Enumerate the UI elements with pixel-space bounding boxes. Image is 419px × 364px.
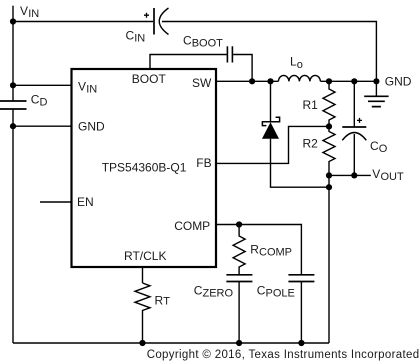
svg-text:C: C — [126, 28, 135, 42]
svg-text:IN: IN — [134, 32, 145, 44]
svg-text:C: C — [31, 93, 40, 107]
node RCOMP junction — [236, 221, 242, 227]
capacitor CZERO — [226, 275, 252, 343]
wire RT/CLK riser — [142, 268, 144, 284]
label CZERO — [194, 284, 234, 300]
svg-text:C: C — [183, 33, 192, 47]
capacitor CD — [0, 101, 27, 109]
label CPOLE — [257, 284, 295, 300]
label CD — [31, 93, 48, 109]
svg-text:BOOT: BOOT — [192, 37, 223, 49]
svg-text:o: o — [297, 59, 303, 71]
resistor R1 — [323, 81, 335, 126]
wire CBOOT to SW — [233, 55, 252, 82]
svg-text:ZERO: ZERO — [203, 288, 234, 300]
inductor Lo — [278, 75, 320, 81]
wire bottom rail — [13, 342, 329, 344]
svg-text:FB: FB — [196, 156, 211, 170]
resistor R2 — [323, 126, 335, 343]
capacitor CBOOT — [227, 46, 232, 62]
svg-text:T: T — [163, 295, 170, 307]
svg-text:V: V — [372, 167, 380, 181]
svg-text:COMP: COMP — [174, 219, 210, 233]
svg-text:TPS54360B-Q1: TPS54360B-Q1 — [102, 160, 187, 174]
wire left rail upper — [12, 6, 14, 101]
net label VIN — [20, 4, 39, 20]
wire COMP — [216, 225, 301, 275]
svg-text:V: V — [20, 4, 28, 18]
net label VOUT — [372, 167, 404, 183]
svg-text:IN: IN — [86, 83, 97, 95]
node GND pin junction — [10, 123, 16, 129]
wire VOUT — [329, 174, 371, 176]
svg-text:EN: EN — [77, 195, 94, 209]
node FB junction — [326, 123, 332, 129]
node CPOLE bottom junction — [298, 340, 304, 346]
label CO — [370, 139, 388, 155]
node VIN top junction — [10, 18, 16, 24]
svg-text:R: R — [250, 243, 259, 257]
label CBOOT — [183, 33, 223, 49]
resistor RT — [135, 283, 150, 343]
wire L out to GND sym — [320, 80, 376, 82]
pin label VIN — [78, 79, 97, 95]
capacitor CIN — [144, 8, 169, 35]
svg-text:IN: IN — [28, 8, 39, 20]
resistor RCOMP — [233, 225, 245, 275]
wire GND pin — [13, 125, 71, 127]
node R1 top junction — [326, 78, 332, 84]
label RCOMP — [250, 243, 292, 259]
svg-text:R2: R2 — [303, 137, 319, 151]
capacitor CPOLE — [288, 275, 314, 343]
label CIN — [126, 28, 146, 44]
capacitor CO — [342, 81, 366, 175]
label RT — [155, 293, 171, 307]
node CBOOT junction — [249, 78, 255, 84]
svg-text:C: C — [257, 284, 266, 298]
label Lo — [290, 55, 303, 71]
node CZERO bottom junction — [236, 340, 242, 346]
svg-text:COMP: COMP — [259, 247, 292, 259]
svg-text:D: D — [40, 97, 48, 109]
op IC U1 TPS54360B-Q1 box — [72, 69, 217, 267]
node VOUT junction — [326, 172, 332, 178]
wire top VIN feed — [13, 21, 153, 23]
svg-text:Copyright © 2016, Texas Instru: Copyright © 2016, Texas Instruments Inco… — [147, 349, 419, 361]
svg-text:O: O — [379, 143, 388, 155]
svg-text:GND: GND — [78, 119, 105, 133]
node diode return junction — [326, 184, 332, 190]
wire VIN pin — [13, 84, 71, 86]
node CO bottom junction — [351, 172, 357, 178]
wire BOOT riser — [150, 55, 227, 69]
svg-text:POLE: POLE — [266, 288, 295, 300]
node GND junction — [373, 78, 379, 84]
diode D1 — [262, 81, 329, 187]
node VIN pin junction — [10, 82, 16, 88]
node RT bottom junction — [139, 340, 145, 346]
svg-text:GND: GND — [385, 75, 412, 89]
node diode junction — [267, 78, 273, 84]
svg-text:RT/CLK: RT/CLK — [124, 249, 166, 263]
svg-text:R: R — [155, 293, 164, 307]
svg-text:SW: SW — [192, 76, 212, 90]
wire FB — [216, 126, 329, 163]
svg-text:V: V — [78, 79, 86, 93]
wire SW line — [216, 80, 278, 82]
svg-text:C: C — [194, 284, 203, 298]
wire top to GND corner — [162, 22, 376, 82]
svg-text:C: C — [370, 139, 379, 153]
svg-text:OUT: OUT — [381, 171, 405, 183]
svg-text:BOOT: BOOT — [132, 72, 167, 86]
wire left rail lower — [12, 109, 14, 343]
ground — [364, 81, 388, 106]
node CO top junction — [351, 78, 357, 84]
svg-text:R1: R1 — [303, 98, 319, 112]
wire EN stub — [40, 201, 71, 203]
